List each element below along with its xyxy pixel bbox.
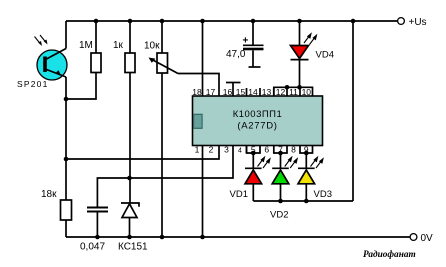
LED VD1 bottom wire bbox=[252, 184, 254, 201]
wire 1M bottom lead to emitter bbox=[66, 73, 96, 100]
LED VD3 bottom wire bbox=[305, 184, 307, 201]
wire pin 18 to +Us rail bbox=[202, 21, 204, 96]
LED VD1 triangle (red) bbox=[245, 170, 262, 184]
svg-text:11: 11 bbox=[289, 87, 298, 97]
wire wiper to pin 17 bbox=[178, 74, 219, 97]
potentiometer wiper arrowhead bbox=[149, 58, 156, 63]
svg-text:47,0: 47,0 bbox=[226, 49, 246, 60]
svg-text:10к: 10к bbox=[144, 41, 160, 52]
svg-text:7: 7 bbox=[278, 145, 283, 155]
svg-text:9: 9 bbox=[304, 145, 309, 155]
svg-text:Радиофанат: Радиофанат bbox=[363, 249, 416, 260]
transistor emitter stroke bbox=[47, 70, 67, 78]
potentiometer R3 10k top lead bbox=[161, 21, 163, 53]
node pin11 junction bbox=[297, 85, 302, 90]
svg-text:5: 5 bbox=[251, 145, 256, 155]
svg-text:К1003ПП1: К1003ПП1 bbox=[233, 109, 283, 120]
wire right +Us vertical rail bbox=[352, 21, 354, 201]
pin ticks bottom 4 bbox=[246, 146, 248, 153]
potentiometer wiper diagonal bbox=[151, 59, 178, 74]
svg-text:3: 3 bbox=[224, 145, 229, 155]
LED VD1 arrows bbox=[258, 159, 264, 167]
node zener rail junction bbox=[127, 235, 132, 240]
wire left vertical (collector to rail) bbox=[65, 21, 67, 49]
node pin18 rail junction bbox=[200, 19, 205, 24]
terminal 0V bbox=[410, 234, 417, 241]
zener VD5 KC151 cathode bar bbox=[121, 203, 139, 207]
wire box pins 12-11-10 bbox=[274, 87, 313, 96]
svg-text:2: 2 bbox=[209, 145, 214, 155]
pin 11 tick bbox=[299, 87, 301, 96]
IC key notch bbox=[194, 114, 203, 128]
LED VD4 anode wire bbox=[299, 21, 301, 46]
svg-text:VD4: VD4 bbox=[316, 50, 334, 61]
wire top +Us rail bbox=[66, 20, 398, 22]
pin 12 tick bbox=[286, 87, 288, 96]
pin 5 box bbox=[247, 146, 261, 153]
svg-text:10: 10 bbox=[302, 87, 312, 97]
pin ticks top (16,15,14) bbox=[232, 83, 234, 97]
light arrow 1 bbox=[35, 37, 41, 45]
node VD4 rail junction bbox=[297, 19, 302, 24]
wire C1 bottom stub bbox=[252, 50, 254, 67]
wire VD4 cathode to pin 11 bbox=[299, 60, 301, 88]
LED VD2 triangle (green) bbox=[272, 170, 289, 184]
svg-text:+: + bbox=[243, 36, 249, 47]
terminal +Us bbox=[398, 18, 405, 25]
node 1M-emitter junction bbox=[64, 97, 69, 102]
resistor R1 1M body bbox=[91, 53, 101, 73]
svg-text:КС151: КС151 bbox=[118, 241, 148, 252]
LED VD4 arrow 1 bbox=[304, 35, 310, 43]
capacitor C1 bottom plate (thick) bbox=[243, 48, 264, 51]
LED VD1 wire from pin5 bbox=[252, 153, 254, 168]
transistor collector stroke bbox=[47, 49, 67, 60]
wire A pin2 to emitter line bbox=[66, 146, 219, 159]
svg-text:1M: 1M bbox=[79, 40, 93, 51]
LED VD4 arrow 2 bbox=[310, 37, 316, 45]
svg-text:18к: 18к bbox=[41, 189, 57, 200]
LED VD1 cathode bar bbox=[245, 167, 262, 169]
pin 16 tee bar bbox=[226, 82, 241, 84]
svg-text:12: 12 bbox=[276, 87, 286, 97]
node right rail top junction bbox=[351, 19, 356, 24]
wire 10k bottom lead to 0V rail bbox=[161, 73, 163, 237]
node C2 rail junction bbox=[95, 235, 100, 240]
svg-text:1к: 1к bbox=[113, 40, 124, 51]
svg-text:14: 14 bbox=[248, 87, 258, 97]
LED VD2 arrows bbox=[285, 159, 291, 167]
LED VD2 wire from pin7 bbox=[280, 153, 282, 168]
transistor emitter arrowhead bbox=[56, 70, 61, 76]
LED VD3 arrows bbox=[311, 159, 317, 167]
svg-text:(А277D): (А277D) bbox=[237, 121, 277, 132]
LED VD4 cathode bar bbox=[291, 59, 309, 61]
wire left vertical (emitter down to bottom rail) bbox=[65, 77, 67, 237]
pin 15 tick bbox=[246, 88, 248, 96]
wire C2 bottom lead bbox=[96, 213, 98, 238]
zener VD5 triangle bbox=[122, 204, 137, 218]
LED VD2 bottom wire bbox=[280, 184, 282, 201]
wire B pin3 to divider node bbox=[97, 146, 233, 207]
LED VD3 wire from pin9 bbox=[305, 153, 307, 168]
LED VD3 triangle (yellow) bbox=[298, 170, 315, 184]
node pin1 rail junction bbox=[200, 235, 205, 240]
transistor Q1 SP201 body bbox=[37, 50, 67, 80]
wire zener to 0V rail bbox=[129, 218, 131, 238]
transistor base bar bbox=[43, 57, 47, 73]
node pin5 bbox=[251, 151, 256, 156]
node VD3 bus junction bbox=[304, 199, 309, 204]
svg-text:+Us: +Us bbox=[409, 17, 427, 28]
svg-text:8: 8 bbox=[291, 145, 296, 155]
pin 13 tick bbox=[273, 88, 275, 96]
wire 1k bottom lead down to zener node bbox=[129, 73, 131, 204]
light arrow 2 bbox=[40, 35, 46, 43]
node zener top junction bbox=[127, 176, 132, 181]
svg-text:4: 4 bbox=[238, 148, 242, 155]
wire 1M top lead bbox=[95, 21, 97, 53]
node 10k bottom rail junction bbox=[160, 235, 165, 240]
pin 9 box bbox=[300, 146, 313, 153]
pin 14 tick bbox=[259, 88, 261, 96]
node 1k top rail junction bbox=[128, 19, 133, 24]
svg-text:0,047: 0,047 bbox=[80, 241, 105, 252]
LED VD3 cathode bar bbox=[298, 167, 315, 169]
LED VD4 triangle bbox=[291, 46, 309, 59]
node pin7 bbox=[278, 151, 283, 156]
wire bottom 0V rail bbox=[66, 236, 410, 238]
svg-text:17: 17 bbox=[206, 87, 216, 97]
svg-text:18: 18 bbox=[192, 87, 202, 97]
node VD2 bus junction bbox=[278, 199, 283, 204]
wire LED anode bus bbox=[253, 200, 353, 202]
node pin9 bbox=[304, 151, 309, 156]
capacitor C1 top plate bbox=[243, 44, 264, 46]
svg-text:VD2: VD2 bbox=[270, 210, 288, 221]
svg-text:VD3: VD3 bbox=[314, 189, 332, 200]
capacitor C1 stub end bar bbox=[249, 66, 261, 68]
IC U1 body bbox=[193, 96, 323, 146]
svg-text:13: 13 bbox=[262, 87, 272, 97]
node wireA-emitter junction bbox=[64, 157, 69, 162]
wire pin1 to 0V rail bbox=[202, 146, 204, 237]
node C1 rail junction bbox=[251, 19, 256, 24]
svg-text:6: 6 bbox=[264, 145, 269, 155]
resistor R4 18k body bbox=[61, 200, 72, 220]
node 10k top rail junction bbox=[160, 19, 165, 24]
pin 7 box bbox=[274, 146, 287, 153]
resistor R2 1k body bbox=[125, 53, 135, 73]
node pin12 junction bbox=[285, 85, 290, 90]
resistor R2 1k top lead bbox=[129, 21, 131, 53]
svg-text:VD1: VD1 bbox=[230, 189, 248, 200]
capacitor C2 bottom plate bbox=[87, 211, 108, 213]
svg-text:0V: 0V bbox=[421, 233, 434, 244]
svg-text:SP201: SP201 bbox=[17, 79, 49, 89]
LED VD2 cathode bar bbox=[272, 167, 289, 169]
node 1M top rail junction bbox=[94, 19, 99, 24]
potentiometer R3 10k body bbox=[157, 53, 168, 73]
svg-text:1: 1 bbox=[195, 145, 200, 155]
capacitor C2 0,047 top plate bbox=[87, 207, 108, 209]
svg-text:16: 16 bbox=[223, 87, 233, 97]
svg-text:15: 15 bbox=[236, 87, 246, 97]
capacitor C1 47,0 top lead bbox=[252, 21, 254, 45]
